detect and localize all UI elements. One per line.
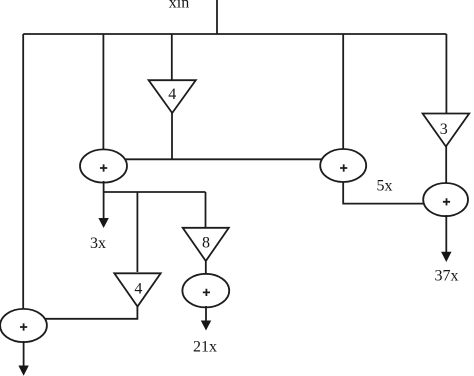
output arrow bottom left [18, 341, 28, 376]
wire A2 output elbow to adder A5 [343, 182, 430, 204]
adder A2 [320, 149, 366, 182]
output arrow 37x [441, 215, 451, 262]
wire adder A1 to adder A2 link [103, 158, 343, 160]
svg-text:4: 4 [134, 281, 142, 298]
svg-text:3: 3 [440, 121, 448, 138]
multiplier M1 gain 4 [149, 80, 196, 113]
svg-text:xin: xin [169, 0, 189, 12]
output arrow 3x [98, 181, 108, 228]
svg-text:8: 8 [202, 235, 210, 252]
adder A4 [0, 309, 47, 342]
multiplier M2 gain 4 [114, 273, 160, 306]
adder A3 [182, 274, 229, 308]
wire bus drop to multiplier M1 [171, 34, 173, 80]
svg-text:21x: 21x [193, 339, 217, 356]
svg-text:5x: 5x [377, 177, 393, 194]
svg-text:37x: 37x [435, 267, 459, 284]
wire left branch drop to adder A4 [22, 34, 24, 326]
wire bus drop to adder A2 [342, 34, 344, 166]
output arrow 21x [201, 306, 211, 331]
wire M1 output down to adder link [171, 113, 173, 159]
multiplier M4 gain 8 [183, 228, 229, 261]
wire top distribution bus [23, 33, 446, 35]
wire bus drop to multiplier M3 [445, 34, 447, 113]
wire bus drop to adder A1 [102, 34, 104, 166]
svg-text:4: 4 [168, 86, 176, 103]
wire branch drop to multiplier M2 [136, 192, 138, 272]
wire M2 output elbow to adder A4 [23, 306, 137, 319]
wire xin input drop [216, 0, 218, 34]
wire M3 output to adder A5 [445, 146, 447, 200]
multiplier M3 gain 3 [423, 114, 470, 147]
wire M4 output to adder A3 [205, 261, 207, 292]
svg-text:3x: 3x [90, 235, 106, 252]
wire A1 output branch horizontal [104, 191, 206, 193]
adder A5 [423, 183, 468, 216]
adder A1 [80, 149, 127, 182]
wire branch drop to multiplier M4 [205, 192, 207, 227]
